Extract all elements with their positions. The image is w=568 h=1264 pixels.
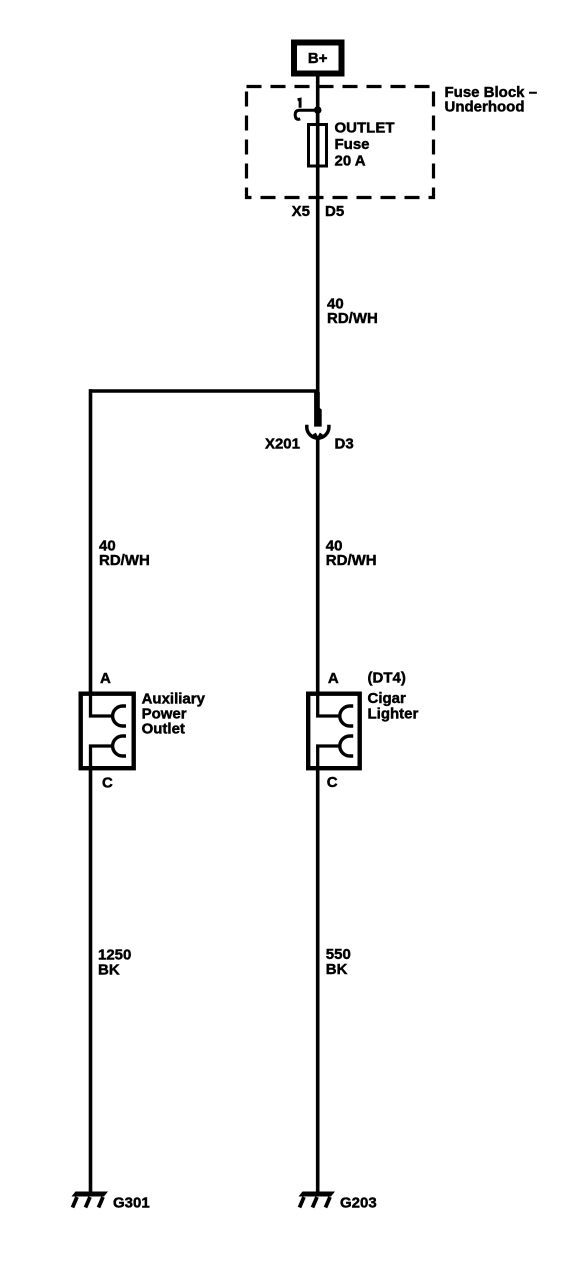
svg-text:G301: G301 [113, 1194, 150, 1211]
svg-text:RD/WH: RD/WH [326, 552, 377, 569]
svg-text:OUTLET: OUTLET [335, 120, 395, 137]
svg-text:D5: D5 [325, 203, 344, 220]
cigar lighter label [368, 690, 419, 723]
svg-text:B+: B+ [308, 50, 328, 67]
svg-text:D3: D3 [335, 436, 354, 453]
wire fuse to splice [316, 198, 320, 393]
svg-text:RD/WH: RD/WH [327, 310, 378, 327]
svg-text:A: A [328, 670, 339, 687]
svg-text:Fuse: Fuse [335, 136, 370, 153]
svg-text:Lighter: Lighter [368, 706, 419, 723]
male wedge terminal at X201 [314, 392, 322, 427]
fuse block underhood dashed box [247, 87, 434, 198]
ground G301 [72, 1192, 109, 1208]
wire B+ to fuse block [316, 77, 320, 124]
junction dot [314, 106, 322, 114]
wire cigar lighter to ground [316, 768, 320, 1192]
svg-text:RD/WH: RD/WH [99, 552, 150, 569]
wire label 40 RD/WH right [326, 537, 377, 569]
svg-text:A: A [100, 670, 111, 687]
female cup terminal at X201 [307, 425, 329, 438]
ground G203 [299, 1192, 336, 1208]
wire through fuse [316, 110, 320, 198]
wire label 40 RD/WH upper [327, 295, 378, 327]
svg-text:X201: X201 [265, 436, 300, 453]
cigar lighter box [308, 694, 360, 770]
svg-text:X5: X5 [292, 203, 310, 220]
fuse block label [445, 84, 538, 116]
left wire splice to aux outlet [89, 389, 93, 694]
wire branch horizontal [89, 389, 318, 392]
male terminal tick at fuse block entry [298, 99, 301, 108]
svg-text:Underhood: Underhood [445, 99, 525, 116]
wire label 40 RD/WH left [99, 537, 150, 569]
svg-text:G203: G203 [340, 1194, 377, 1211]
svg-text:20 A: 20 A [335, 153, 366, 170]
fuse label [335, 120, 395, 170]
svg-text:(DT4): (DT4) [368, 669, 406, 686]
auxiliary power outlet label [142, 690, 206, 737]
wire aux outlet to ground [89, 768, 93, 1192]
svg-text:Cigar: Cigar [368, 690, 407, 707]
svg-text:C: C [102, 774, 113, 791]
svg-text:Outlet: Outlet [142, 720, 185, 737]
wire X201 to cigar lighter [316, 438, 320, 695]
female hook terminal at fuse block entry [295, 110, 318, 119]
fuse OUTLET 20A [309, 125, 327, 167]
svg-text:BK: BK [98, 962, 120, 979]
wire label 1250 BK [98, 947, 131, 979]
male V inside X201 [314, 434, 321, 440]
wire label 550 BK [326, 946, 351, 978]
battery feed B+ [294, 43, 342, 74]
svg-text:C: C [327, 774, 338, 791]
svg-text:BK: BK [326, 961, 348, 978]
auxiliary power outlet box [81, 694, 134, 770]
